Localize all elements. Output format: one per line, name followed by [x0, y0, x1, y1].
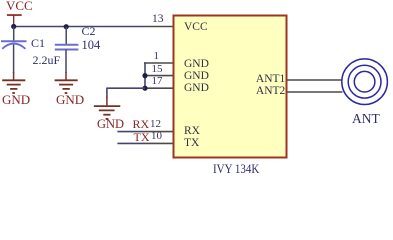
pin number 13	[152, 14, 164, 26]
wire VCC to C1	[13, 27, 15, 41]
pin number 15	[152, 64, 163, 75]
ground symbol GND3	[94, 97, 121, 119]
wire GND branch horizontal	[107, 87, 145, 89]
wire C2 to ground	[65, 50, 67, 74]
pin name ANT1	[256, 74, 285, 86]
net label RX	[133, 118, 150, 130]
value label C2	[82, 25, 96, 37]
power port VCC	[7, 14, 22, 26]
pin name RX	[184, 126, 200, 138]
capacitor C2	[55, 45, 79, 50]
junction node at VCC/C1	[11, 24, 16, 29]
wire main VCC rail	[13, 26, 144, 28]
pin number 10	[151, 131, 162, 142]
antenna ANT coil	[342, 59, 388, 105]
pin name VCC	[184, 22, 208, 34]
pin name TX	[184, 138, 199, 150]
pin number 17	[152, 76, 163, 87]
net label VCC	[6, 0, 33, 12]
pin name GND 17	[184, 83, 209, 95]
net label GND (C1)	[2, 93, 30, 106]
net label TX	[134, 131, 150, 143]
part label IVY 134K	[213, 163, 259, 176]
wire GND branch drop	[106, 88, 108, 99]
junction node pin15	[142, 73, 147, 78]
pin name GND 15	[184, 71, 209, 83]
label ANT	[352, 112, 380, 126]
net label GND (mid)	[97, 118, 124, 131]
pin ANT2 stub	[288, 91, 343, 93]
wire RX	[117, 131, 144, 133]
pin name GND 1	[184, 59, 209, 71]
wire C2 drop	[65, 27, 67, 45]
junction node pin17	[142, 86, 147, 91]
pin 15 stub	[144, 75, 174, 77]
pin ANT1 stub	[288, 79, 343, 81]
net label GND (C2)	[56, 93, 84, 106]
pin 12 stub	[144, 131, 174, 133]
pin 10 stub	[144, 142, 174, 144]
op-amp U1 IC body IVY 134K	[174, 16, 287, 158]
pin name ANT2	[256, 86, 285, 98]
pin 13 stub	[144, 26, 174, 28]
value label C1	[31, 37, 45, 49]
wire TX	[117, 142, 144, 144]
wire C1 to ground	[13, 45, 15, 74]
value label 104	[82, 39, 101, 52]
pin 17 stub	[144, 87, 174, 89]
junction node at C2	[64, 24, 69, 29]
wire GND bus vertical	[144, 62, 146, 88]
pin 1 stub	[144, 62, 174, 64]
pin number 1	[154, 51, 160, 62]
capacitor C1	[1, 41, 27, 49]
ground symbol GND2	[55, 72, 78, 93]
value label 2.2uF	[33, 54, 61, 66]
ground symbol GND1	[2, 72, 25, 93]
pin number 12	[150, 119, 161, 130]
